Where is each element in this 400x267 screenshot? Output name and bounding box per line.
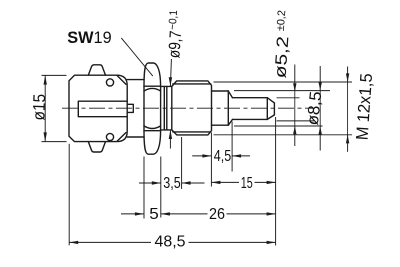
svg-text:3,5: 3,5 bbox=[163, 175, 181, 192]
svg-text:26: 26 bbox=[209, 206, 225, 223]
svg-text:4,5: 4,5 bbox=[214, 148, 232, 165]
svg-text:48,5: 48,5 bbox=[155, 234, 186, 251]
svg-text:ø15: ø15 bbox=[29, 94, 49, 121]
svg-text:ø8,5: ø8,5 bbox=[304, 91, 325, 127]
svg-text:5: 5 bbox=[149, 206, 159, 223]
svg-text:SW19: SW19 bbox=[67, 29, 111, 47]
svg-text:15: 15 bbox=[241, 175, 253, 192]
